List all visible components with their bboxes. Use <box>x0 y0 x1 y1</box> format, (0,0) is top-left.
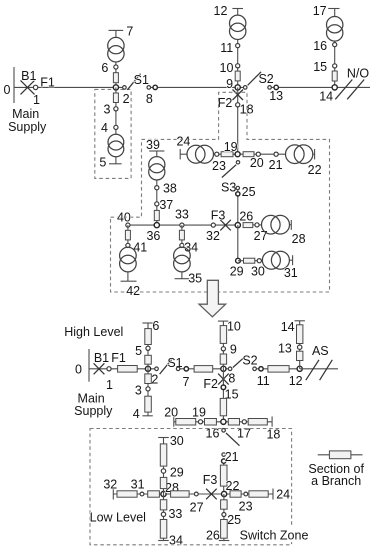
svg-text:Main: Main <box>12 107 39 121</box>
terminal bar 34 <box>158 540 169 542</box>
node 41 <box>126 243 130 247</box>
transformer 5 (two circles) <box>108 134 124 150</box>
node 3 <box>114 107 118 111</box>
svg-text:12: 12 <box>289 374 303 388</box>
wire node 2 down <box>115 87 117 134</box>
node 4 <box>114 125 118 129</box>
svg-text:26: 26 <box>239 209 253 223</box>
section rect 11-12 <box>268 366 289 373</box>
svg-text:4: 4 <box>133 407 140 421</box>
svg-text:23: 23 <box>212 159 226 173</box>
svg-text:14: 14 <box>319 89 333 103</box>
transformer 12 (two circles) <box>237 9 239 16</box>
wire bus S1 to S2 <box>149 86 246 88</box>
svg-text:B1: B1 <box>21 69 36 83</box>
terminal bar 18 <box>271 417 273 427</box>
svg-text:Supply: Supply <box>8 120 47 134</box>
column 2 down: wire <box>147 369 149 416</box>
transformer 28 (two circles) <box>262 215 281 234</box>
svg-text:27: 27 <box>254 229 268 243</box>
big down arrow <box>199 280 226 317</box>
junction node 12 <box>297 366 302 371</box>
svg-text:34: 34 <box>184 240 198 254</box>
svg-text:a Branch: a Branch <box>311 474 361 488</box>
breaker B1 <box>94 363 105 374</box>
transformer 35 (two circles) <box>174 247 191 264</box>
node 27 <box>255 223 259 227</box>
section rect above node 9 <box>235 71 240 81</box>
section rect 8-9 <box>220 354 226 364</box>
switch S1 right contacts <box>176 367 180 371</box>
switch S3 contact <box>236 161 239 164</box>
svg-text:19: 19 <box>224 140 238 154</box>
junction node 2 <box>113 85 118 90</box>
svg-text:17: 17 <box>313 4 327 18</box>
section rect 7-8 <box>194 366 213 373</box>
node 37 <box>155 202 159 206</box>
section rect 32-31 <box>117 491 137 497</box>
section rect 9-10 <box>220 326 226 344</box>
section rect 19-16 <box>205 419 217 426</box>
section rect 17-18 <box>248 419 267 426</box>
svg-text:27: 27 <box>190 501 204 515</box>
transformer 42 (two circles) <box>120 247 137 264</box>
svg-text:30: 30 <box>170 434 184 448</box>
switch S2 contact <box>243 86 247 90</box>
terminal bar 32 <box>112 489 114 500</box>
terminal bar 4 <box>142 415 152 417</box>
transformer 39 (two circles) <box>156 151 158 157</box>
junction node 9 <box>235 85 240 90</box>
svg-text:30: 30 <box>251 264 265 278</box>
left cross column wire <box>163 438 165 541</box>
junction node 36 <box>154 223 159 228</box>
terminal bar 10 <box>218 320 228 322</box>
link blade 16 to 21 <box>226 433 240 446</box>
svg-text:18: 18 <box>266 428 280 442</box>
section rect 23-19 <box>221 152 233 157</box>
svg-text:31: 31 <box>131 477 145 491</box>
svg-text:8: 8 <box>228 372 235 386</box>
svg-text:25: 25 <box>227 513 241 527</box>
svg-text:34: 34 <box>169 534 183 548</box>
wire 12 to AS <box>300 368 338 370</box>
section rect 33-34 <box>160 520 167 539</box>
svg-text:33: 33 <box>168 507 182 521</box>
svg-text:6: 6 <box>152 319 159 333</box>
section rect 2-5 <box>145 355 152 364</box>
section rect 40-41 <box>125 230 130 240</box>
svg-text:1: 1 <box>106 378 113 392</box>
svg-text:F2: F2 <box>218 96 233 110</box>
node 13 <box>298 345 302 349</box>
svg-text:31: 31 <box>284 266 298 280</box>
svg-text:38: 38 <box>163 182 177 196</box>
svg-text:35: 35 <box>188 272 202 286</box>
node 15 <box>333 64 337 68</box>
wire S3 to main row <box>237 186 239 225</box>
switch S1 blade <box>160 358 174 374</box>
svg-text:2: 2 <box>123 92 130 106</box>
wire 21 down <box>223 460 225 465</box>
section rect 19-20 <box>243 152 254 157</box>
N/O double slash <box>335 80 352 100</box>
svg-text:S1: S1 <box>134 73 149 87</box>
svg-text:S1: S1 <box>167 356 182 370</box>
svg-text:2: 2 <box>151 373 158 387</box>
node 20 <box>256 152 260 156</box>
svg-text:Switch Zone: Switch Zone <box>240 528 309 542</box>
node 6 <box>114 65 118 69</box>
node 33 <box>180 223 184 227</box>
svg-text:Supply: Supply <box>74 404 113 418</box>
node 40 <box>126 223 130 227</box>
svg-text:9: 9 <box>226 77 233 91</box>
svg-text:11: 11 <box>220 41 233 55</box>
section rect 37-36 <box>154 210 159 220</box>
switch S3 blade <box>222 165 236 178</box>
svg-text:5: 5 <box>99 155 106 169</box>
svg-text:0: 0 <box>4 83 11 97</box>
main supply bus bar (node 0) <box>13 67 15 103</box>
svg-text:0: 0 <box>75 362 82 376</box>
svg-text:13: 13 <box>278 341 292 355</box>
dashed box around branch 2-5 <box>95 89 131 178</box>
legend: section of a branch symbol <box>318 454 363 456</box>
wire 22 down to junction <box>223 486 225 494</box>
section rect above node 2 <box>113 73 118 83</box>
svg-text:AS: AS <box>312 344 329 358</box>
node 25 <box>222 513 226 517</box>
svg-text:16: 16 <box>313 39 327 53</box>
svg-text:S2: S2 <box>258 72 273 86</box>
wire column node2 up to transformer <box>115 62 117 87</box>
section rect 25 <box>221 500 228 509</box>
section rect 15-16 <box>220 398 226 415</box>
svg-text:F1: F1 <box>40 76 55 90</box>
node 32 <box>211 223 215 227</box>
svg-text:29: 29 <box>170 466 184 480</box>
section rect F1 <box>118 366 138 373</box>
svg-text:24: 24 <box>176 134 190 148</box>
svg-text:22: 22 <box>308 163 322 177</box>
svg-text:42: 42 <box>126 284 140 298</box>
switch S2 contact <box>228 367 232 371</box>
junction node 8 <box>221 366 226 371</box>
svg-text:33: 33 <box>175 208 189 222</box>
column 34-35: wire <box>181 225 183 247</box>
row 28 wire <box>113 493 273 495</box>
section rect 5-6 <box>145 329 152 345</box>
switch S2 blade <box>233 355 247 367</box>
svg-text:10: 10 <box>227 319 241 333</box>
svg-text:3: 3 <box>104 103 111 117</box>
switch zone dashed box <box>90 429 292 545</box>
fuse F3 (X) <box>206 489 217 500</box>
svg-text:32: 32 <box>103 478 117 492</box>
section rect 16-17 <box>228 419 239 426</box>
section rect 29-28 <box>160 477 167 488</box>
wire S1 to node 8 <box>178 368 230 370</box>
switch S1 blade <box>127 74 140 90</box>
AS double slash <box>306 360 319 380</box>
wire transformer 24 to node 19 <box>214 153 244 155</box>
section rect 28-33 <box>160 500 167 510</box>
transformer 24 (two circles) <box>187 145 205 163</box>
node 10 <box>236 64 240 68</box>
column 41-42: wire <box>127 225 129 247</box>
svg-text:7: 7 <box>183 375 190 389</box>
svg-text:20: 20 <box>164 405 178 419</box>
svg-text:19: 19 <box>192 405 206 419</box>
node 34 <box>180 243 184 247</box>
wire column node 14 up <box>334 41 336 87</box>
wire terminal to transformer 24 <box>180 153 187 155</box>
section rect 12-13 <box>297 351 303 360</box>
svg-text:S2: S2 <box>242 354 257 368</box>
node 30 <box>257 259 261 263</box>
fuse F3 (X) <box>220 220 231 231</box>
svg-text:High Level: High Level <box>64 325 123 339</box>
section rect 23 <box>230 491 241 497</box>
node 21 contacts <box>222 453 226 457</box>
wire column node 9 up to transformer <box>237 40 239 88</box>
svg-text:36: 36 <box>146 229 160 243</box>
svg-text:21: 21 <box>225 450 239 464</box>
column 2 up: wire <box>147 323 149 369</box>
switch S1 right contacts <box>147 86 151 90</box>
switch S3 lower contacts <box>236 186 239 189</box>
main middle row wire 40 to 26 <box>128 224 238 226</box>
terminal bar 24 <box>272 489 274 500</box>
junction node 29 <box>236 258 241 263</box>
wire 26 down to 29 <box>237 225 239 261</box>
wire node 9 down to node 19 <box>237 87 239 154</box>
row 16 wire <box>174 421 272 423</box>
transformer 17 (two circles) <box>334 9 336 17</box>
node 21 <box>274 152 278 156</box>
svg-text:26: 26 <box>206 528 220 542</box>
node 23 <box>244 492 248 496</box>
switch S2 right contacts <box>253 367 257 371</box>
svg-text:20: 20 <box>250 156 264 170</box>
section rect above node 14 <box>332 71 337 81</box>
middle dashed zone outline <box>111 92 330 292</box>
section rect 29-30 <box>160 444 167 466</box>
switch S1 contact circle <box>123 86 127 90</box>
junction node 19 <box>235 152 240 157</box>
svg-text:S3: S3 <box>221 181 236 195</box>
section rect 33-34 <box>179 230 184 240</box>
node 29 <box>161 469 165 473</box>
svg-text:F3: F3 <box>203 473 218 487</box>
wire 27 to transformer 28 <box>253 224 262 226</box>
svg-text:8: 8 <box>146 92 153 106</box>
svg-text:10: 10 <box>220 61 234 75</box>
svg-text:21: 21 <box>269 158 283 172</box>
svg-text:F2: F2 <box>203 377 218 391</box>
node 18 <box>236 103 240 107</box>
svg-text:3: 3 <box>135 384 142 398</box>
main supply bus bar (node 0) <box>88 349 90 382</box>
section rect 26-27 <box>243 223 253 228</box>
section rect 3-4 <box>145 396 152 412</box>
column 12 up: wire <box>299 321 301 369</box>
node 1 <box>107 367 111 371</box>
node 23 <box>215 152 219 156</box>
svg-text:4: 4 <box>101 121 108 135</box>
switch S2 blade <box>248 72 262 86</box>
row19: left terminal bar <box>179 149 181 159</box>
svg-text:F1: F1 <box>111 351 126 365</box>
svg-text:40: 40 <box>117 211 131 225</box>
breaker B1 <box>21 80 35 94</box>
transformer 31 (two circles) <box>262 251 280 269</box>
node 11 <box>236 44 240 48</box>
section rect below node 2 <box>113 93 118 103</box>
terminal bar 30 <box>158 437 169 439</box>
section rect 31-28 <box>148 491 160 497</box>
svg-text:37: 37 <box>159 198 173 212</box>
svg-text:23: 23 <box>239 499 253 513</box>
svg-text:6: 6 <box>101 61 108 75</box>
section rect 28-27 <box>171 491 190 497</box>
svg-text:11: 11 <box>257 374 270 388</box>
switch S1 contact <box>155 367 159 371</box>
wire S2 to node 12 <box>255 368 300 370</box>
column 8 up: wire <box>222 321 224 369</box>
section rect 25-26 <box>221 520 228 539</box>
section rect 2-3 <box>145 374 152 384</box>
junction node 2 <box>145 366 150 371</box>
section rect 20-19 <box>176 419 196 426</box>
svg-text:13: 13 <box>269 89 283 103</box>
node 19 <box>198 420 202 424</box>
wire 8 down to 16 <box>222 369 224 422</box>
svg-text:15: 15 <box>313 60 327 74</box>
svg-text:N/O: N/O <box>347 67 370 81</box>
node 17 <box>242 420 246 424</box>
svg-text:5: 5 <box>135 344 142 358</box>
svg-text:32: 32 <box>206 229 220 243</box>
svg-text:29: 29 <box>230 264 244 278</box>
junction node 14 <box>332 85 337 90</box>
svg-text:25: 25 <box>242 185 256 199</box>
node 38 <box>155 186 159 190</box>
fuse F2 (X) <box>233 90 244 101</box>
node 31 <box>140 492 144 496</box>
svg-text:39: 39 <box>146 138 160 152</box>
wire 29 to transformer 31 <box>238 260 262 262</box>
label Switch Zone (with white backing over dashed edge) <box>242 527 306 542</box>
junction node 28 <box>161 491 166 496</box>
junction node 16 <box>221 419 226 424</box>
svg-text:Low Level: Low Level <box>90 510 146 524</box>
wire bus segment 0 to S1 <box>14 86 125 88</box>
terminal bar 20 <box>173 417 175 427</box>
terminal bar 6 <box>142 322 152 324</box>
svg-text:F3: F3 <box>211 209 226 223</box>
wire node 20 to transformer 22 <box>254 153 286 155</box>
node 5 <box>146 346 150 350</box>
svg-text:14: 14 <box>281 320 295 334</box>
terminal bar 26 <box>219 540 230 542</box>
node 27 <box>194 492 198 496</box>
link contact below node 16 <box>222 429 226 433</box>
column 39: wire <box>156 180 158 225</box>
transformer 7 (two circles) <box>115 30 117 37</box>
svg-text:7: 7 <box>126 25 133 39</box>
node 1 <box>33 85 37 89</box>
svg-text:24: 24 <box>276 488 290 502</box>
fuse F2 (X) <box>218 374 229 385</box>
terminal bar 14 <box>295 320 305 322</box>
svg-text:28: 28 <box>292 232 306 246</box>
switch S2 right contacts <box>268 86 272 90</box>
wire bus 0 to S1 <box>89 368 157 370</box>
transformer 22 (two circles) <box>286 145 305 164</box>
svg-text:B1: B1 <box>94 351 109 365</box>
node 15 <box>221 385 226 390</box>
node 16 <box>333 43 337 47</box>
section rect 23-24 <box>249 491 268 497</box>
node 9 <box>221 347 225 351</box>
junction node 26 <box>235 223 240 228</box>
svg-text:1: 1 <box>33 93 40 107</box>
junction node 22-23 <box>222 491 227 496</box>
node 3 <box>146 387 150 391</box>
wire bus S2 to node 14 <box>270 86 370 88</box>
section rect 21-22 <box>220 465 227 486</box>
section rect 29-30 <box>244 258 255 263</box>
node 33 <box>161 512 165 516</box>
svg-text:12: 12 <box>214 4 228 18</box>
right cross lower column wire <box>223 494 225 541</box>
section rect 13-14 <box>297 325 303 344</box>
svg-text:9: 9 <box>230 343 237 357</box>
